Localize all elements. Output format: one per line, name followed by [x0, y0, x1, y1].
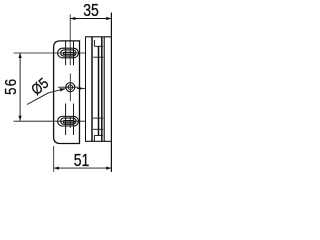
svg-text:Ø5: Ø5 [27, 74, 51, 98]
vertical centerline through bottom slot [69, 116, 71, 128]
top slot right flank line [73, 41, 75, 65]
side view bottom notch left line [93, 135, 95, 141]
Ø5 leader line [49, 89, 67, 93]
side view rear plate front face x104.2 [103, 37, 105, 142]
side view bottom edge [85, 140, 111, 142]
51 dim left extension line [53, 146, 55, 172]
bottom slot left flank line [65, 104, 67, 136]
top slot left flank line [65, 41, 67, 65]
side view inner line x101.8 [101, 37, 103, 142]
side view top edge [85, 36, 111, 38]
side view bottom notch top [94, 134, 103, 136]
hole C1 outer circle [66, 83, 75, 92]
side view bottom screw box top [93, 117, 103, 119]
side view right edge + 35 and 51 dim right extensions [110, 13, 112, 173]
51 dim left arrowhead [54, 167, 59, 170]
top slot inner obround [61, 50, 76, 56]
top slot outer obround [58, 48, 79, 58]
hole horizontal centerline [58, 86, 79, 88]
hole C1 inner circle [68, 85, 73, 90]
56 dim top arrowhead [19, 53, 22, 58]
35 dimension line [70, 18, 111, 20]
bottom slot outer obround [58, 116, 79, 126]
side view bottom screw box bottom [93, 128, 103, 130]
front view plate outline [54, 41, 80, 144]
vertical centerline through top slot + 35 dim left extension [69, 14, 71, 65]
side view top notch left line [93, 40, 95, 46]
gap pointer arrowhead [76, 87, 81, 89]
svg-text:35: 35 [83, 2, 99, 21]
Ø5 leader arrowhead [60, 88, 66, 91]
side view tab line x98.5 [98, 46, 100, 135]
side view left edge [85, 37, 87, 142]
svg-text:56: 56 [3, 78, 20, 95]
svg-text:51: 51 [74, 152, 90, 171]
51 dim right arrowhead [106, 167, 111, 170]
bottom slot innermost obround [63, 121, 74, 123]
gap pointer line at hole height [77, 87, 86, 89]
top slot centerline + 56 dim top extension [14, 52, 87, 54]
35 dim right arrowhead [106, 17, 111, 20]
bottom slot centerline + 56 dim bottom extension [14, 120, 87, 122]
hole vertical centerline [69, 74, 71, 102]
side view inner line x92 [91, 37, 93, 142]
bottom slot right flank line [73, 104, 75, 136]
bottom slot inner obround [61, 118, 76, 124]
51 dimension line [54, 167, 112, 169]
top slot innermost obround [63, 52, 74, 54]
Ø5 label underline [27, 93, 49, 105]
56 dimension line [19, 53, 21, 121]
56 dim bottom arrowhead [19, 116, 22, 121]
35 dim left arrowhead [70, 17, 75, 20]
side view top notch bottom [94, 45, 103, 47]
side view top screw box bottom [93, 56, 103, 58]
